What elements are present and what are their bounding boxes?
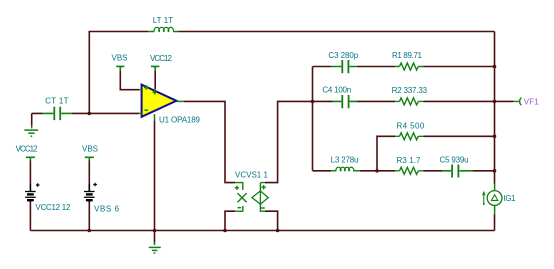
svg-text:R4 500: R4 500	[397, 121, 425, 130]
capacitor CT	[43, 107, 72, 120]
wire CT row to op-amp inverting input	[32, 113, 139, 125]
ground left	[24, 126, 38, 137]
ground bottom center	[149, 231, 161, 254]
node junction VBS battery	[88, 229, 92, 233]
svg-text:VF1: VF1	[524, 98, 539, 107]
svg-text:L3 278u: L3 278u	[331, 156, 359, 165]
inductor L3	[331, 167, 360, 171]
ground rail bottom	[30, 230, 494, 232]
wire VCC12 to op-amp V+ pin	[154, 71, 156, 90]
net terminal VBS top	[116, 66, 124, 71]
node junction row4 right	[493, 169, 497, 173]
wire VBS to op-amp non-inverting input	[120, 71, 139, 90]
output terminal VF1	[514, 98, 522, 105]
node junction VCVS input low	[223, 229, 227, 233]
svg-text:VCC12: VCC12	[16, 145, 39, 154]
svg-text:VBS: VBS	[112, 54, 128, 63]
capacitor C4	[333, 95, 357, 108]
current source IG1	[482, 184, 502, 214]
resistor R3	[395, 167, 423, 174]
capacitor C3	[331, 60, 357, 73]
node junction R4 right	[493, 135, 497, 139]
net terminal VCC12 top	[151, 66, 159, 71]
svg-text:VCVS1 1: VCVS1 1	[235, 171, 268, 180]
capacitor C5	[442, 165, 472, 178]
battery VBS	[84, 161, 97, 231]
battery VCC12	[25, 161, 39, 231]
svg-text:R2 337.33: R2 337.33	[392, 86, 428, 95]
svg-text:VCC12 12: VCC12 12	[35, 203, 71, 212]
wire VCVS input low side to ground rail	[225, 211, 235, 230]
node junction R4 branch	[375, 169, 379, 173]
wire op-amp V- to ground rail	[154, 120, 156, 230]
wire row R4	[377, 136, 495, 171]
wire row C4 R2 to VF1	[313, 100, 514, 102]
node junction ground / op-amp V-	[153, 229, 157, 233]
resistor R4	[395, 133, 423, 140]
resistor R2	[395, 98, 423, 105]
wire top loop	[89, 32, 494, 114]
svg-text:VCC12: VCC12	[150, 54, 173, 63]
svg-text:R1 89.71: R1 89.71	[392, 51, 423, 60]
svg-text:R3 1.7: R3 1.7	[397, 156, 422, 165]
svg-text:U1 OPA189: U1 OPA189	[159, 115, 201, 124]
node junction row2 right	[493, 100, 497, 104]
svg-text:VBS: VBS	[82, 145, 98, 154]
op-amp U1 OPA189	[139, 85, 184, 121]
net terminal VBS left	[85, 157, 94, 160]
wire feedback node vertical	[312, 67, 314, 171]
svg-text:VBS 6: VBS 6	[94, 205, 120, 214]
node junction feedback	[311, 100, 315, 104]
wire VCVS output high to feedback node	[265, 101, 313, 182]
net terminal VCC12 left	[26, 157, 35, 160]
svg-text:CT 1T: CT 1T	[45, 97, 69, 106]
svg-text:IG1: IG1	[504, 194, 517, 203]
node junction VCVS output low	[276, 229, 280, 233]
svg-text:C5 939u: C5 939u	[440, 156, 469, 165]
wire row C3 R1	[313, 66, 495, 68]
resistor R1	[395, 63, 423, 70]
svg-text:LT 1T: LT 1T	[153, 16, 174, 25]
wire row L3 R3 C5	[313, 170, 495, 172]
wire op-amp output to VCVS input	[184, 101, 235, 182]
inductor LT	[148, 27, 178, 31]
node junction row1 right	[493, 65, 497, 69]
wire VCVS output low to ground rail	[265, 211, 278, 230]
svg-text:C3 280p: C3 280p	[328, 51, 358, 60]
controlled source VCVS1	[235, 183, 269, 212]
node junction CT / inverting input	[88, 112, 92, 116]
wire right vertical	[494, 32, 496, 231]
svg-text:C4 100n: C4 100n	[322, 86, 351, 95]
